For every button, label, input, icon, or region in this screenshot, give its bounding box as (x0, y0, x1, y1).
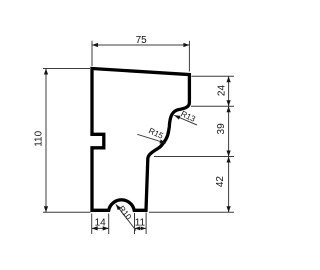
profile outline (92, 69, 189, 211)
dim 42 line (228, 157, 230, 213)
svg-text:42: 42 (215, 176, 226, 188)
dim 42 arrow top (227, 157, 231, 163)
dim 14 arrow left (92, 226, 98, 230)
dim 75 extension line left (91, 41, 93, 66)
svg-text:11: 11 (135, 218, 146, 229)
R10 leader arrow (116, 204, 121, 210)
dim 11 extension line left (134, 213, 136, 234)
dim 110 extension line top (43, 68, 90, 70)
R13 leader arrow (174, 115, 180, 119)
dim 42 extension line bottom (149, 211, 234, 213)
dim 75 extension line right (188, 41, 190, 72)
svg-text:75: 75 (136, 35, 148, 46)
dim 24 extension line top (192, 75, 235, 77)
dim 75 line (92, 44, 189, 46)
dim 110 line (45, 69, 47, 213)
dim 42 arrow bottom (227, 206, 231, 212)
dim 75 arrow left (92, 43, 98, 47)
dim 39 arrow top (227, 106, 231, 112)
R15 leader line (137, 134, 166, 143)
dim 75 arrow right (183, 43, 189, 47)
dim 11 extension line right (145, 213, 147, 235)
dim 14 extension line right (108, 214, 110, 235)
dim 14 extension line left (91, 214, 93, 235)
dim 110 arrow top (44, 69, 48, 75)
dim 14 line (92, 227, 109, 229)
dim 24 line (228, 76, 230, 106)
dim 11 arrow right (141, 227, 147, 231)
dim 39/42 shared extension line (154, 156, 234, 158)
R10 leader line (116, 204, 136, 230)
dim 24 arrow bottom (227, 100, 231, 106)
dim 11 line (135, 227, 147, 229)
dim 14 arrow right (103, 226, 109, 230)
dim 110 arrow bottom (44, 206, 48, 212)
dim 39 arrow bottom (227, 151, 231, 157)
dim 11 arrow left (135, 227, 141, 231)
dim 24/39 shared extension line (191, 105, 234, 107)
R15 leader arrow (159, 139, 165, 143)
svg-text:110: 110 (34, 130, 45, 146)
dim 39 line (228, 106, 230, 156)
R13 leader line (174, 115, 197, 125)
svg-text:24: 24 (216, 85, 227, 97)
svg-text:39: 39 (216, 123, 227, 135)
dim 24 arrow top (227, 76, 231, 82)
dim 110 extension line bottom (43, 211, 91, 213)
svg-text:14: 14 (95, 217, 107, 228)
